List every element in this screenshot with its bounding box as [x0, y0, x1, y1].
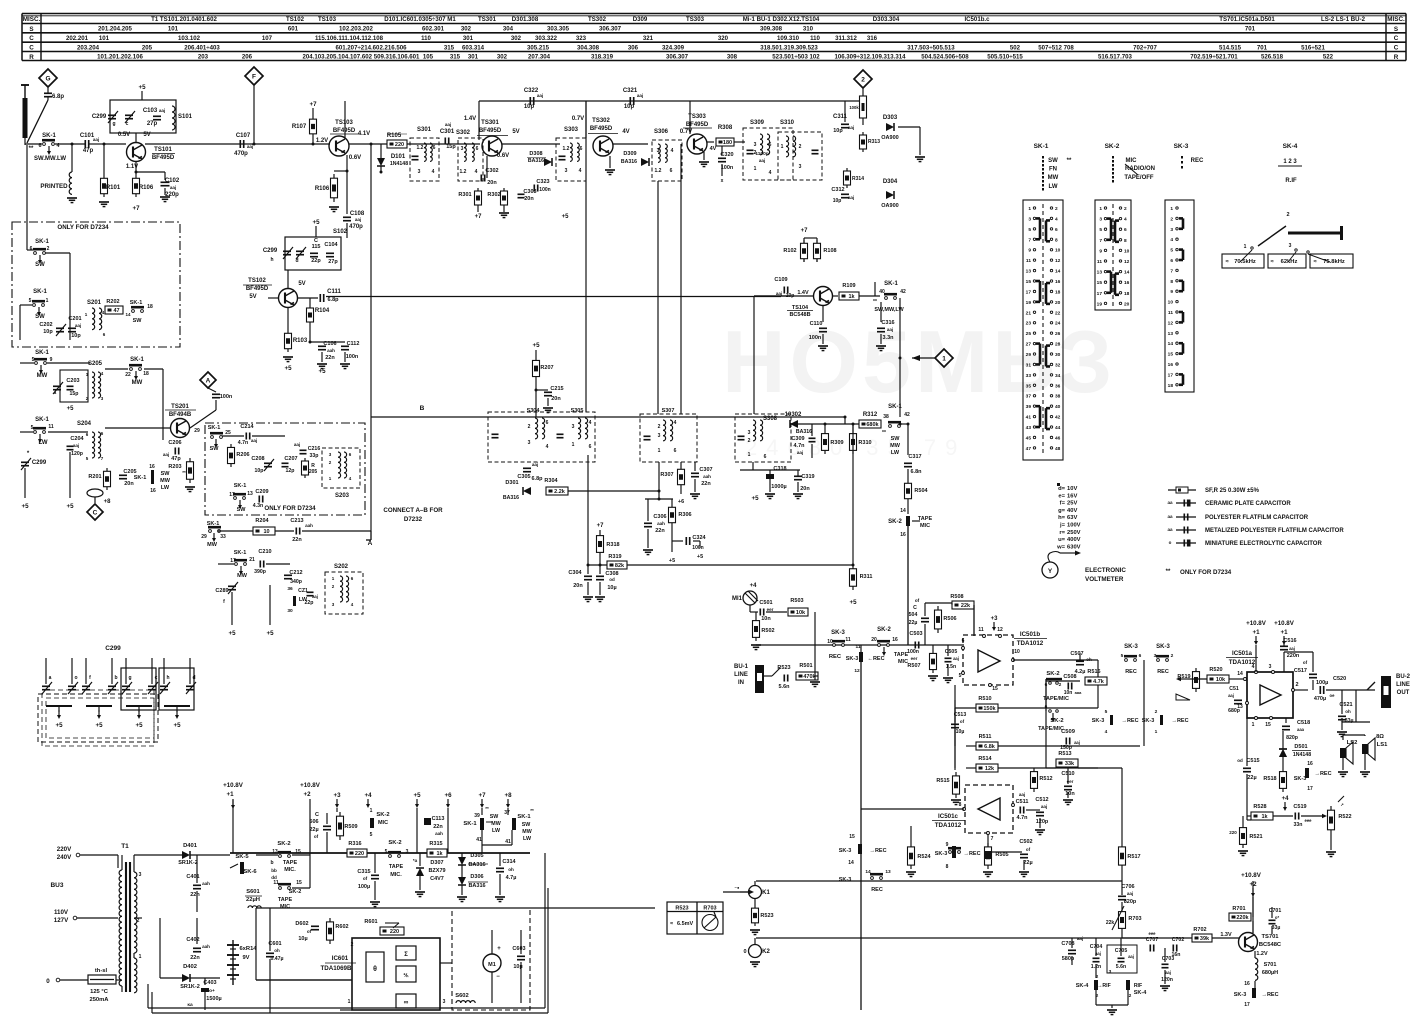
svg-text:PRINTED: PRINTED [40, 183, 68, 190]
wire [844, 100, 846, 102]
wire [545, 409, 551, 411]
svg-text:1: 1 [754, 166, 757, 172]
coil [340, 576, 343, 581]
wire [1118, 899, 1126, 901]
svg-text:4: 4 [671, 148, 674, 154]
svg-text:C106: C106 [323, 341, 336, 347]
wire [486, 821, 492, 823]
svg-text:2: 2 [137, 918, 140, 924]
wire [1097, 660, 1099, 708]
wire [344, 352, 346, 362]
svg-text:3: 3 [799, 164, 802, 170]
wire [318, 349, 326, 351]
wire [323, 294, 325, 302]
wire [230, 978, 236, 980]
svg-text:220: 220 [355, 851, 364, 857]
svg-text:6: 6 [769, 142, 772, 148]
wire [966, 767, 976, 769]
svg-text:2: 2 [861, 76, 865, 83]
svg-text:R204: R204 [255, 518, 269, 524]
svg-text:MIC: MIC [920, 523, 930, 529]
wire [189, 458, 191, 483]
diode [886, 123, 894, 131]
wire [1188, 678, 1207, 680]
svg-text:22n: 22n [190, 955, 200, 961]
wire [21, 465, 29, 467]
wire [196, 855, 198, 883]
svg-text:h: h [166, 675, 169, 681]
svg-text:33k: 33k [1065, 761, 1075, 767]
resistor [607, 561, 627, 569]
wire [133, 154, 142, 159]
svg-text:20n: 20n [573, 583, 583, 589]
wire [215, 439, 217, 444]
svg-text:13: 13 [1168, 331, 1174, 337]
svg-text:SW: SW [522, 822, 531, 828]
svg-text:C: C [1394, 35, 1399, 42]
svg-text:6: 6 [1139, 653, 1142, 659]
wire [53, 389, 61, 391]
svg-text:S701: S701 [1264, 962, 1277, 968]
wire [1118, 895, 1126, 897]
wire [759, 609, 761, 616]
resistor [1085, 677, 1107, 685]
wire [693, 540, 700, 542]
svg-text:3: 3 [139, 872, 142, 878]
svg-text:g: g [128, 675, 131, 681]
svg-text:306: 306 [628, 44, 639, 51]
wire [740, 891, 749, 893]
wire [795, 495, 801, 497]
wire [300, 449, 307, 451]
wire [283, 356, 293, 358]
wire [900, 423, 908, 425]
svg-text:C401: C401 [186, 874, 199, 880]
wire [440, 962, 452, 964]
svg-text:30: 30 [287, 608, 293, 614]
wire [116, 979, 122, 981]
wire [67, 449, 74, 451]
svg-text:+4: +4 [364, 792, 372, 799]
svg-text:SK-2: SK-2 [277, 841, 290, 847]
wire [285, 291, 294, 296]
svg-text:IC501b.c: IC501b.c [964, 16, 990, 23]
wire [176, 706, 178, 712]
svg-text:R520: R520 [1209, 667, 1222, 673]
svg-text:470p: 470p [234, 151, 248, 157]
wire [523, 471, 531, 473]
svg-text:1.2: 1.2 [655, 168, 662, 174]
wire [447, 808, 449, 853]
svg-text:K1: K1 [762, 890, 770, 896]
wire [20, 431, 33, 433]
wire [240, 566, 242, 571]
svg-text:10n: 10n [1065, 791, 1075, 797]
svg-text:D402: D402 [183, 964, 197, 970]
svg-text:MIC.: MIC. [390, 872, 402, 878]
wire [477, 135, 508, 137]
svg-text:15: 15 [296, 880, 302, 886]
svg-text:**: ** [882, 430, 886, 436]
wire [311, 929, 319, 931]
svg-text:R311: R311 [860, 574, 873, 580]
svg-text:aah: aah [202, 881, 210, 886]
svg-text:VOLTMETER: VOLTMETER [1085, 576, 1124, 583]
wire [751, 644, 761, 646]
wire [841, 127, 849, 129]
coil [92, 308, 95, 313]
wire [122, 685, 130, 687]
wire [814, 686, 817, 688]
wire [315, 226, 317, 237]
svg-text:16: 16 [1124, 280, 1130, 286]
wire [268, 297, 278, 299]
wire [1115, 219, 1119, 222]
svg-text:OA900: OA900 [881, 135, 898, 141]
svg-text:10: 10 [1055, 248, 1061, 254]
wire [627, 564, 853, 566]
svg-text:316: 316 [867, 35, 878, 42]
svg-text:aaj: aaj [1019, 792, 1025, 797]
svg-text:MW: MW [1048, 175, 1059, 181]
wire [814, 643, 816, 676]
svg-text:21: 21 [1026, 310, 1032, 316]
wire [1149, 945, 1151, 952]
wire [108, 118, 116, 120]
wire [907, 480, 909, 502]
coil [344, 452, 347, 457]
svg-text:R506: R506 [943, 616, 956, 622]
svg-text:TS303: TS303 [686, 16, 705, 23]
wire [763, 609, 765, 616]
svg-text:+5: +5 [532, 342, 540, 349]
wire [336, 799, 338, 804]
svg-text:42: 42 [904, 412, 910, 418]
wire [915, 156, 925, 158]
wire [213, 533, 215, 538]
wire [1036, 426, 1040, 429]
wire [832, 295, 838, 297]
svg-text:10p: 10p [524, 104, 535, 110]
wire [844, 417, 846, 424]
wire [883, 647, 885, 652]
svg-text:R: R [29, 54, 34, 61]
svg-text:22n: 22n [292, 537, 302, 543]
svg-text:205: 205 [142, 44, 153, 51]
wire [812, 149, 819, 151]
wire [1046, 282, 1050, 285]
wire [1121, 908, 1123, 932]
svg-text:aah: aah [202, 944, 210, 949]
svg-text:4: 4 [475, 169, 478, 175]
wire [587, 455, 589, 574]
svg-text:TDA1012: TDA1012 [1017, 640, 1044, 647]
wire [721, 164, 723, 176]
svg-text:SK-1: SK-1 [208, 425, 221, 431]
wire [599, 582, 601, 595]
wire [583, 596, 593, 598]
wire [103, 175, 105, 197]
wire [228, 582, 238, 594]
wire [264, 466, 272, 468]
svg-text:REC: REC [1125, 669, 1137, 675]
svg-text:8: 8 [959, 802, 962, 808]
wire [696, 902, 698, 934]
svg-text:6.8p: 6.8p [327, 297, 339, 303]
svg-text:R312: R312 [863, 412, 878, 418]
wire [1182, 343, 1185, 353]
wire [336, 148, 345, 153]
wire [1279, 748, 1287, 750]
wire [135, 133, 137, 143]
wire [187, 488, 193, 490]
wire [1245, 935, 1254, 940]
wire [40, 14, 42, 61]
wire [756, 880, 1122, 882]
wire [292, 887, 310, 889]
wire [1036, 301, 1040, 304]
wire [1182, 374, 1185, 384]
wire [230, 852, 310, 854]
svg-text:1.2: 1.2 [417, 145, 424, 151]
svg-text:ELECTRONIC: ELECTRONIC [1085, 567, 1126, 574]
wire [1079, 653, 1081, 660]
svg-text:8Ω: 8Ω [1376, 734, 1384, 740]
svg-text:D308: D308 [529, 151, 542, 157]
wire [448, 138, 450, 145]
wire [680, 462, 682, 466]
svg-text:SK-2: SK-2 [376, 812, 389, 818]
wire [811, 444, 813, 458]
wire [178, 448, 180, 455]
svg-text:f=: f= [1060, 501, 1066, 507]
svg-text:1N4148: 1N4148 [1293, 752, 1311, 758]
wire [103, 206, 106, 208]
svg-text:o*: o* [1275, 915, 1280, 920]
svg-text:250V: 250V [1067, 530, 1081, 536]
wire [266, 952, 274, 954]
wire [1023, 876, 1026, 878]
svg-text:302: 302 [497, 54, 508, 61]
svg-text:CONNECT A–B FOR: CONNECT A–B FOR [383, 507, 443, 514]
wire [1182, 250, 1185, 260]
svg-text:16: 16 [1055, 279, 1061, 285]
wire [145, 143, 330, 145]
wire [212, 397, 220, 399]
svg-text:220n: 220n [1287, 653, 1300, 659]
wire [841, 197, 849, 199]
svg-text:of: of [915, 598, 920, 603]
svg-text:100n: 100n [721, 165, 734, 171]
wire [152, 1012, 548, 1014]
svg-text:C103: C103 [143, 108, 158, 114]
wire [907, 424, 909, 455]
wire [19, 305, 21, 340]
wire [419, 876, 421, 890]
svg-text:SK-1: SK-1 [234, 483, 247, 489]
svg-text:47p: 47p [171, 456, 181, 462]
svg-text:C215: C215 [550, 386, 563, 392]
wire [256, 907, 655, 909]
wire [232, 799, 234, 853]
svg-text:2: 2 [47, 246, 50, 252]
wire [275, 530, 294, 532]
wire [523, 467, 531, 469]
svg-text:C: C [315, 812, 319, 818]
wire [1020, 857, 1028, 859]
wire [764, 675, 772, 677]
svg-text:20: 20 [1124, 301, 1130, 307]
svg-text:13: 13 [247, 491, 253, 497]
wire [119, 474, 127, 476]
wire [21, 14, 23, 61]
svg-text:25: 25 [225, 430, 231, 436]
wire [125, 658, 127, 684]
wire [212, 393, 220, 395]
svg-text:10p: 10p [624, 104, 635, 110]
svg-text:aaj: aaj [637, 93, 643, 98]
wire [68, 327, 76, 329]
wire [595, 596, 605, 598]
svg-text:C306: C306 [653, 514, 666, 520]
svg-text:R517: R517 [1127, 854, 1140, 860]
wire [1319, 686, 1321, 694]
svg-text:x: x [721, 178, 724, 184]
svg-text:100n: 100n [907, 649, 919, 655]
wire [492, 437, 499, 439]
wire [599, 141, 601, 152]
wire [1095, 938, 1097, 956]
wire [1026, 809, 1040, 811]
wire [1036, 280, 1040, 283]
svg-text:+10.8V: +10.8V [300, 782, 321, 789]
svg-text:²⁄ₕ: ²⁄ₕ [403, 972, 409, 979]
resistor [976, 764, 998, 772]
wire [48, 431, 88, 433]
svg-text:C207: C207 [284, 456, 297, 462]
svg-text:BA316: BA316 [621, 159, 637, 165]
wire [1172, 945, 1174, 952]
svg-text:C512: C512 [1035, 797, 1048, 803]
svg-text:C202: C202 [39, 322, 52, 328]
wire [1242, 855, 1245, 857]
wire [46, 705, 72, 707]
wire [605, 169, 615, 171]
svg-text:3: 3 [754, 142, 757, 148]
svg-text:≈: ≈ [1225, 259, 1228, 265]
wire [647, 554, 650, 556]
svg-text:18: 18 [1168, 383, 1174, 389]
svg-text:C502: C502 [1019, 839, 1032, 845]
transistor [814, 287, 833, 306]
svg-text:BF495D: BF495D [479, 128, 502, 134]
svg-text:18: 18 [1124, 291, 1130, 297]
svg-text:SK-3: SK-3 [1294, 776, 1307, 782]
wire [222, 435, 244, 437]
wire [671, 504, 673, 526]
wire [1115, 272, 1119, 275]
wire [1120, 938, 1122, 956]
wire [647, 529, 649, 548]
svg-text:R522: R522 [1338, 814, 1351, 820]
wire [1247, 815, 1251, 817]
wire [925, 602, 952, 604]
svg-text:R521: R521 [1249, 834, 1262, 840]
wire [499, 853, 501, 866]
svg-text:C304: C304 [568, 570, 582, 576]
svg-text:BU-2: BU-2 [1396, 674, 1411, 680]
resistor [788, 608, 808, 616]
svg-text:2: 2 [799, 144, 802, 150]
wire [832, 640, 845, 643]
wire [333, 211, 336, 213]
svg-text:3: 3 [461, 146, 464, 152]
svg-text:100n: 100n [346, 354, 359, 360]
svg-text:SK-1: SK-1 [884, 281, 898, 287]
wire [82, 689, 90, 691]
svg-text:101: 101 [99, 35, 110, 42]
wire [1226, 657, 1258, 659]
wire [787, 675, 789, 682]
wire [346, 223, 348, 238]
svg-text:+3: +3 [333, 792, 341, 799]
svg-text:504.524.506÷508: 504.524.506÷508 [921, 54, 969, 61]
svg-text:R601: R601 [364, 919, 377, 925]
wire [183, 433, 187, 435]
svg-text:5V: 5V [298, 281, 305, 287]
svg-text:15p: 15p [70, 391, 79, 397]
svg-text:10p: 10p [71, 333, 81, 339]
wire [1039, 809, 1041, 811]
svg-text:C403: C403 [203, 980, 216, 986]
svg-text:SK-1: SK-1 [134, 475, 147, 481]
wire [492, 433, 499, 435]
svg-text:TAPE: TAPE [918, 516, 933, 522]
svg-text:SK-1: SK-1 [517, 814, 531, 820]
svg-text:R307: R307 [660, 472, 673, 478]
svg-text:R602: R602 [335, 924, 348, 930]
wire [148, 689, 156, 691]
svg-text:17: 17 [1168, 372, 1174, 378]
svg-text:aaa: aaa [1075, 690, 1082, 695]
svg-text:ONLY FOR D7234: ONLY FOR D7234 [264, 505, 316, 512]
wire [1176, 529, 1196, 531]
wire [1288, 252, 1296, 262]
svg-text:TS103: TS103 [318, 16, 337, 23]
transistor [1239, 933, 1258, 952]
svg-text:SW: SW [35, 262, 45, 268]
wire [310, 852, 530, 854]
wire [1039, 218, 1042, 239]
wire [230, 968, 236, 970]
svg-text:27: 27 [1026, 342, 1032, 348]
svg-text:IC501a: IC501a [1232, 650, 1253, 657]
svg-text:TAPE: TAPE [283, 860, 298, 866]
svg-text:220: 220 [395, 142, 404, 148]
switch contact [130, 368, 133, 371]
wire [1121, 881, 1123, 895]
wire [326, 296, 781, 298]
svg-text:39k: 39k [1200, 936, 1210, 942]
wire [1162, 987, 1168, 989]
wire [27, 249, 33, 251]
wire [1273, 815, 1293, 817]
wire [1063, 799, 1073, 801]
svg-text:4.1V: 4.1V [358, 131, 370, 137]
svg-text:BA316: BA316 [528, 158, 544, 164]
svg-text:10µ: 10µ [956, 729, 965, 735]
svg-text:R502: R502 [761, 628, 774, 634]
